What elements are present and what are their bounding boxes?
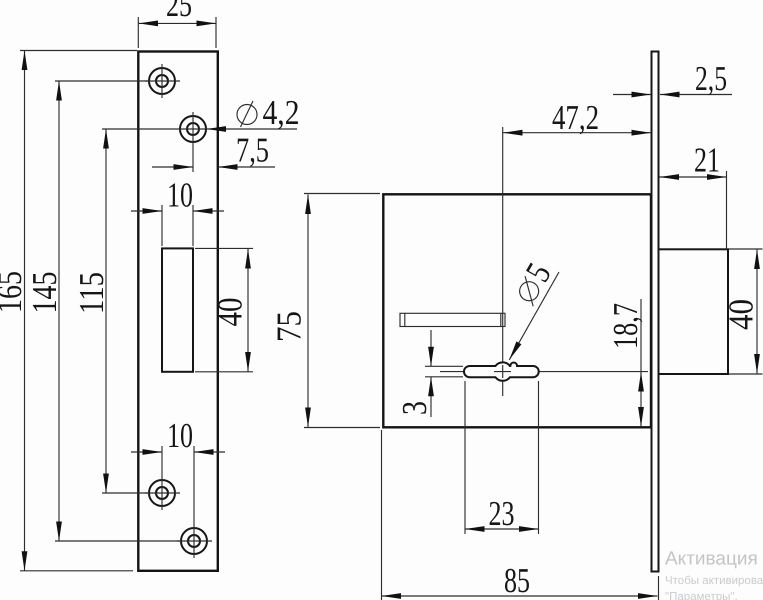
dimension 10 bottom (hole offset) [131,416,225,558]
svg-text:40: 40 [722,299,761,330]
svg-text:Чтобы активировать Windows, пе: Чтобы активировать Windows, перейдите в … [665,575,763,587]
dimension 25 (plate width) [138,0,216,48]
screw hole H1 top [145,64,180,98]
dimension 3 (keyhole slot height) [395,330,463,417]
svg-text:40: 40 [211,298,250,327]
latch bolt side view [659,249,729,374]
svg-text:"Параметры".: "Параметры". [665,591,738,600]
svg-text:10: 10 [167,416,193,455]
dimension 47,2 (keyhole to faceplate) [503,98,651,137]
svg-text:85: 85 [504,561,530,600]
keyhole centerline horizontal left [440,371,464,373]
keyhole [464,362,539,380]
leader dia 5 (keyhole diameter) [505,256,559,359]
svg-text:18,7: 18,7 [606,303,645,349]
svg-text:10: 10 [167,176,193,215]
dimension 21 (bolt depth) [660,141,727,250]
keyhole center cross dashes [494,371,511,373]
svg-text:23: 23 [489,494,515,533]
dimension 115 (inner hole span) [72,129,207,493]
screw hole H2 upper-mid [180,112,206,172]
lock body outline [383,194,651,427]
dimension 2,5 (faceplate thickness) [613,59,732,98]
leader dia 4,2 (hole diameter callout) [207,93,300,132]
svg-text:7,5: 7,5 [236,131,269,170]
svg-text:3: 3 [395,401,434,415]
svg-text:4,2: 4,2 [263,93,300,132]
dimension 7,5 (hole to edge) [152,131,275,170]
faceplate front view outline [138,52,218,571]
svg-text:2,5: 2,5 [695,59,727,98]
keyhole centerline horizontal right (ext for 18,7) [539,371,648,373]
dimension 145 (hole span) [25,81,181,541]
keyhole centerline vertical below [502,381,504,397]
svg-text:145: 145 [25,272,64,314]
dimension 23 (keyhole width) [465,381,539,534]
dimension 75 (body height) [270,194,381,428]
lever slot bar inside body [400,313,505,326]
svg-text:75: 75 [270,311,309,342]
faceplate side view [652,52,659,572]
dimension 165 (overall height) [0,51,137,571]
faceplate slot (front view) [162,248,193,371]
svg-text:25: 25 [166,0,192,24]
screw hole H3 lower-mid [145,480,180,506]
dimension 18,7 (keyhole to bottom) [606,299,645,427]
svg-text:21: 21 [694,141,720,180]
dimension 40 (bolt height) [722,249,763,374]
screw hole H4 bottom [177,528,212,554]
svg-text:115: 115 [72,272,111,314]
svg-text:47,2: 47,2 [552,98,599,137]
dimension 40 (slot height) [195,248,253,371]
dimension 10 top (slot width) [131,176,224,247]
svg-text:Активация W: Активация W [665,549,763,570]
keyhole centerline vertical [502,127,504,363]
dimension 85 (body width) [382,430,659,600]
